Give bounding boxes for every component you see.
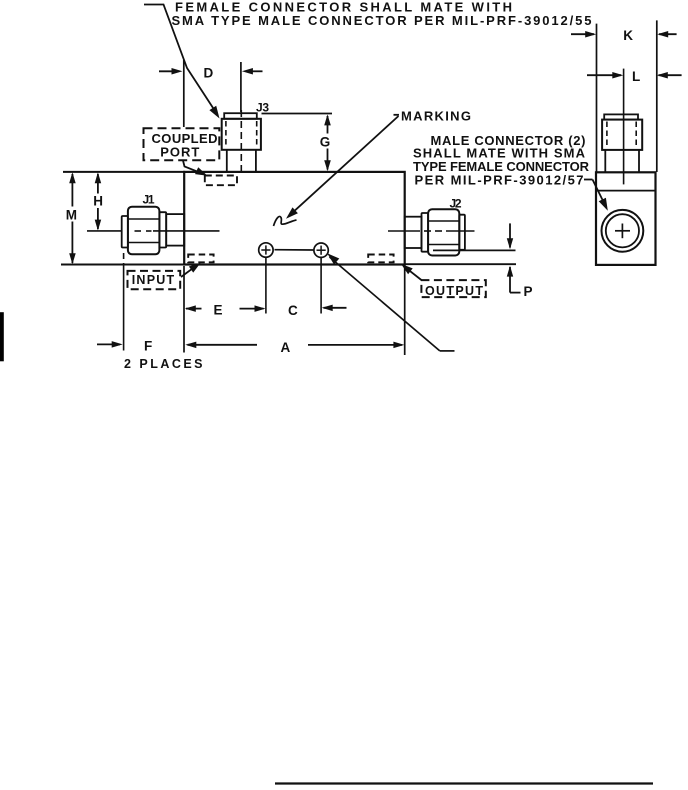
dimension H arrow — [95, 172, 102, 230]
J1 face extension line down — [123, 253, 125, 351]
connector J3 neck — [227, 150, 256, 172]
centerline between mounting holes — [275, 249, 314, 251]
svg-text:J1: J1 — [143, 193, 155, 207]
mounting hole 1 extension line — [265, 258, 267, 314]
svg-text:E: E — [214, 302, 223, 317]
dimension F arrow — [97, 341, 123, 348]
connector J2 hex nut — [428, 209, 459, 255]
P reference line at connector bottom — [433, 249, 516, 251]
INPUT label text — [132, 273, 175, 287]
connector J3 centerline dashed — [240, 110, 242, 172]
OUTPUT dashed label box — [421, 280, 485, 297]
mounting hole 2 extension line — [320, 258, 322, 314]
coupled port slot, dashed — [205, 176, 237, 186]
COUPLED PORT label text — [152, 131, 218, 160]
side view connector face outer circle — [602, 210, 644, 252]
body bottom edge extension to left — [61, 264, 185, 266]
note: male connector (2), line 4 — [415, 173, 584, 188]
side view connector center crosshair — [615, 224, 630, 239]
connector J2 centerline to right — [446, 230, 475, 232]
label J1 — [143, 193, 155, 207]
connector J1 neck — [166, 214, 184, 246]
side view connector face inner circle — [606, 214, 639, 247]
svg-text:J2: J2 — [450, 197, 462, 211]
label J2 — [450, 197, 462, 211]
side view connector nut — [602, 120, 642, 150]
note: male connector (2), line 1 — [431, 133, 586, 148]
svg-text:G: G — [320, 135, 331, 150]
dimension P bottom arrow — [507, 266, 521, 293]
dimension C label — [288, 303, 298, 318]
connector J2 centerline into body — [388, 230, 420, 232]
dimension F label — [144, 339, 152, 354]
side view connector neck — [605, 150, 639, 172]
svg-text:M: M — [66, 208, 77, 223]
COUPLED PORT dashed label box — [144, 128, 220, 160]
connector J1 front cap — [122, 216, 128, 248]
svg-text:P: P — [524, 284, 533, 299]
leader from COUPLED PORT to slot — [183, 161, 208, 176]
dimension M arrow — [69, 172, 76, 264]
MARKING label leader dash — [394, 114, 400, 116]
connector J2 nut facet lines — [429, 221, 460, 245]
connector J1 hidden centerline dashes — [135, 230, 152, 232]
note: male connector (2), line 3 — [413, 159, 590, 174]
note: male connector (2), line 2 — [413, 146, 586, 161]
dimension M label — [66, 208, 77, 223]
svg-text:SMA TYPE MALE CONNECTOR PER MI: SMA TYPE MALE CONNECTOR PER MIL-PRF-3901… — [172, 13, 592, 28]
dimension E label — [214, 302, 223, 317]
J1 centerline extension to left — [87, 230, 122, 232]
svg-text:2 PLACES: 2 PLACES — [124, 357, 203, 371]
dimension L right arrow — [657, 72, 682, 79]
connector J1 nut facet lines — [128, 219, 159, 243]
svg-text:C: C — [288, 303, 298, 318]
connector J2 flange — [422, 213, 429, 252]
connector J1 flange — [159, 212, 166, 247]
side view flange step line — [596, 190, 656, 192]
dimension P label — [524, 284, 533, 299]
dimension G label — [320, 135, 331, 150]
coupler body outline, side view — [596, 172, 656, 265]
body right edge extension down — [404, 266, 406, 355]
page margin black bar — [0, 312, 4, 361]
dimension P top arrow — [507, 223, 513, 249]
body top edge extension to left — [63, 171, 185, 173]
connector J2 neck — [405, 217, 422, 248]
svg-text:H: H — [93, 194, 103, 209]
leader from INPUT to slot — [181, 263, 201, 277]
connector J1 centerline into body — [153, 230, 220, 232]
dimension A left arrow — [185, 342, 257, 349]
note: female connector shall mate, line 2 — [172, 13, 592, 28]
svg-text:F: F — [144, 339, 152, 354]
leader from mounting hole 2 — [327, 253, 454, 351]
dimension D right arrow — [242, 68, 263, 75]
K right extension line — [656, 20, 658, 172]
svg-text:PER MIL-PRF-39012/57: PER MIL-PRF-39012/57 — [415, 173, 584, 188]
note: female connector shall mate, line 1 — [175, 0, 512, 15]
svg-text:PORT: PORT — [160, 145, 199, 160]
svg-text:INPUT: INPUT — [132, 273, 175, 287]
connector J2 front cap — [459, 215, 465, 250]
label J3 — [256, 101, 269, 115]
K left extension line — [596, 24, 598, 172]
dimension A right arrow — [308, 342, 404, 349]
connector J3 nut — [222, 119, 261, 150]
coupler body outline, front view — [184, 172, 405, 265]
dimension G arrow — [324, 114, 331, 171]
OUTPUT label text — [425, 284, 483, 298]
side view connector top cap — [604, 114, 638, 119]
extension line, body left edge extended up — [183, 60, 185, 127]
connector J2 hidden centerline dashes — [424, 230, 442, 232]
output port slot, dashed — [368, 255, 393, 263]
body left edge extension down — [183, 266, 185, 353]
mounting hole 2 with crosshair — [314, 243, 328, 257]
dimension L left arrow — [587, 72, 623, 79]
svg-text:A: A — [281, 340, 291, 355]
connector J1 hex nut — [128, 207, 159, 255]
dimension D label — [204, 66, 214, 81]
connector J3 top cap — [224, 113, 257, 119]
dimension H label — [93, 194, 103, 209]
svg-text:COUPLED: COUPLED — [152, 131, 218, 146]
leader from MARKING to body — [286, 116, 399, 219]
svg-text:OUTPUT: OUTPUT — [425, 284, 483, 298]
svg-text:MARKING: MARKING — [401, 109, 471, 124]
dimension K right arrow — [657, 31, 676, 38]
svg-text:J3: J3 — [256, 101, 269, 115]
dimension A label — [281, 340, 291, 355]
connector J3 hidden lines — [226, 121, 257, 148]
dimension K label — [623, 28, 633, 43]
leader from female connector note to J3 — [144, 5, 220, 119]
input port slot, dashed — [188, 255, 213, 263]
marking squiggle symbol — [274, 216, 297, 226]
dimension L label — [632, 69, 640, 84]
leader from OUTPUT to slot — [401, 264, 422, 281]
body bottom edge extension to right — [405, 263, 516, 265]
MARKING label text — [401, 109, 471, 124]
note 2 PLACES — [124, 357, 203, 371]
dimension E arrows — [185, 305, 266, 312]
svg-text:L: L — [632, 69, 640, 84]
svg-text:K: K — [623, 28, 633, 43]
dimension K left arrow — [571, 31, 596, 38]
side view connector hidden lines — [607, 122, 636, 149]
footer rule — [275, 782, 653, 784]
side view connector centerline — [623, 69, 625, 185]
svg-text:D: D — [204, 66, 214, 81]
extension line, J3 centerline extended up — [240, 62, 242, 112]
dimension D left arrow — [159, 68, 183, 75]
dimension C right arrow — [322, 305, 347, 312]
mounting hole 1 with crosshair — [259, 243, 273, 257]
leader from male connector note to side view — [584, 180, 608, 211]
G reference line at J3 top — [262, 113, 333, 115]
INPUT dashed label box — [128, 271, 181, 289]
